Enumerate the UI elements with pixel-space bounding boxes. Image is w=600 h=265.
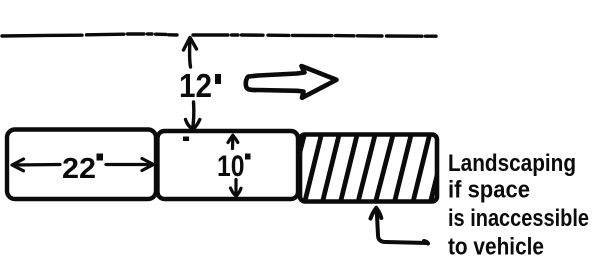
svg-text:to vehicle: to vehicle [448, 234, 544, 261]
node: 10ft up arrow [228, 135, 238, 148]
wire: hatch lines [287, 131, 448, 204]
node: left parking box 22ft [7, 130, 156, 200]
wire: dashed road centerline [2, 34, 436, 36]
node: 10ft down arrow [231, 180, 242, 197]
svg-text:if space: if space [448, 177, 530, 204]
svg-text:12: 12 [179, 67, 212, 104]
svg-text:10: 10 [217, 150, 245, 183]
stray ink dot [183, 137, 189, 142]
node: 12ft dimension down arrow [186, 102, 200, 130]
svg-text:22: 22 [62, 153, 96, 185]
wire: 22ft right arrow [106, 163, 153, 166]
svg-text:Landscaping: Landscaping [448, 150, 576, 177]
svg-text:is inaccessible: is inaccessible [448, 205, 589, 232]
node: landscaping hatched box [300, 135, 437, 202]
node: 12ft dimension up arrow [184, 37, 197, 67]
wire: 22ft left arrow [12, 159, 154, 171]
wire: traffic direction outline arrow [246, 66, 337, 98]
wire: callout elbow arrow to hatch [371, 208, 429, 244]
node: middle parking box 10ft [158, 131, 299, 199]
